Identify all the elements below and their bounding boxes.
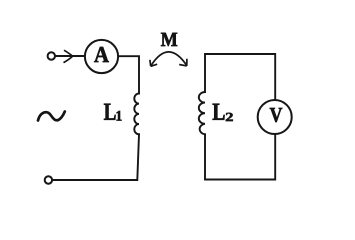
terminal (input bottom) [45,176,52,183]
voltmeter V [258,100,292,134]
wire top-left lead into ammeter [56,55,86,57]
wire right loop top / right / bottom / left [205,54,275,180]
coupling arrowhead right [179,59,187,66]
inductor L2 coil [199,92,205,134]
label M [161,33,177,46]
label L2 [213,104,225,120]
mutual coupling curved arrow [151,52,187,66]
ammeter A [85,40,118,73]
wire ammeter to corner and down to L1 [118,56,139,93]
coupling arrowhead left [150,60,157,67]
AC source tilde [38,112,65,121]
label L2 subscript 2 [226,113,233,121]
voltmeter letter V [270,108,282,122]
current-direction arrowhead on lead [64,50,73,62]
inductor L1 coil [134,94,139,135]
label L1 [104,104,116,120]
terminal (input top) [48,52,55,59]
wire L1 down to bottom rail [53,134,139,180]
label L1 subscript 1 [117,111,122,121]
ammeter letter A [94,47,109,62]
